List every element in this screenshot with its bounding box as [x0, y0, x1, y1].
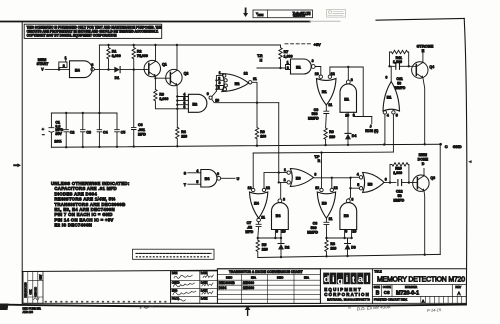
- svg-text:11: 11: [328, 103, 332, 107]
- wire E2 OR output to R6: [252, 82, 257, 102]
- svg-text:+5V: +5V: [314, 42, 322, 47]
- svg-text:DATE: DATE: [201, 271, 208, 275]
- wire GND rail: [51, 144, 441, 147]
- notes block: [51, 181, 130, 228]
- svg-text:6: 6: [385, 178, 387, 182]
- svg-text:MMFD: MMFD: [308, 117, 319, 121]
- svg-text:g: g: [337, 276, 343, 287]
- svg-text:C12: C12: [396, 190, 403, 194]
- svg-text:C6: C6: [138, 123, 143, 127]
- wire pin3 output: [314, 177, 351, 179]
- svg-text:1: 1: [287, 61, 289, 65]
- svg-text:4: 4: [196, 169, 198, 173]
- svg-text:R4: R4: [181, 130, 186, 134]
- svg-text:DEC: DEC: [277, 276, 284, 280]
- capacitor C2: [64, 113, 69, 147]
- wire +5V dashed: [285, 43, 311, 45]
- svg-text:9: 9: [353, 113, 355, 117]
- svg-text:V: V: [41, 67, 44, 71]
- svg-text:5: 5: [357, 183, 359, 187]
- wire pin1 E3T cross-couple: [264, 173, 287, 189]
- title block: [371, 269, 373, 304]
- wire E2 input stubs: [177, 97, 188, 109]
- capacitor C1: [49, 113, 54, 147]
- svg-text:B: B: [376, 291, 380, 297]
- wire D1 to Q1 base: [120, 69, 144, 71]
- svg-text:S: S: [184, 171, 187, 175]
- svg-text:2: 2: [63, 64, 65, 68]
- gate E2 expander OR: [222, 74, 249, 92]
- gate E2 expander AND: [188, 94, 207, 112]
- svg-text:Q3: Q3: [430, 176, 435, 180]
- svg-text:MMFD: MMFD: [393, 199, 404, 203]
- svg-text:A: A: [422, 300, 425, 304]
- svg-text:NUMBER: NUMBER: [293, 14, 305, 18]
- svg-text:MFD: MFD: [245, 230, 253, 234]
- svg-text:P-14-15: P-14-15: [427, 307, 442, 313]
- svg-text:E2: E2: [192, 101, 198, 106]
- svg-text:20%: 20%: [54, 140, 62, 144]
- capacitor C9: [324, 111, 329, 128]
- stamp number box: [253, 10, 313, 18]
- resistor R2: [132, 45, 135, 70]
- svg-text:D1: D1: [115, 76, 120, 80]
- svg-text:10: 10: [215, 99, 219, 103]
- svg-text:2N3009: 2N3009: [243, 281, 254, 285]
- gate E3 nor down mid: [320, 188, 323, 191]
- gate E1 or up: [383, 82, 400, 112]
- wire +5V feed down: [98, 45, 100, 113]
- svg-text:3: 3: [91, 63, 93, 67]
- svg-text:E3: E3: [322, 200, 328, 205]
- wire E2 AND out to OR bus: [212, 91, 217, 96]
- svg-text:+: +: [42, 126, 45, 131]
- svg-text:75,000: 75,000: [137, 54, 148, 58]
- svg-text:MEM: MEM: [419, 153, 427, 157]
- svg-text:.02: .02: [247, 226, 252, 230]
- svg-text:DATE: DATE: [201, 297, 208, 301]
- wire E2 output 10: [212, 99, 279, 103]
- svg-text:12: 12: [331, 72, 335, 76]
- node dots top rail: [107, 44, 178, 46]
- revisions table: [23, 271, 43, 303]
- wire Q1 collector: [155, 45, 157, 61]
- svg-text:8: 8: [351, 78, 353, 82]
- svg-text:CHK'D: CHK'D: [172, 281, 180, 285]
- svg-text:C7: C7: [247, 221, 252, 225]
- svg-text:SIZE: SIZE: [374, 285, 380, 289]
- border bottom heavy: [0, 305, 466, 307]
- gate E3 or top: [287, 171, 290, 174]
- svg-text:STROBE: STROBE: [417, 43, 434, 48]
- svg-text:10: 10: [352, 229, 356, 233]
- border top: [0, 21, 310, 23]
- svg-text:560: 560: [311, 226, 317, 230]
- resistor R11 loop: [390, 50, 409, 66]
- wire pin13 E4L: [252, 153, 254, 188]
- svg-text:C5: C5: [121, 130, 126, 134]
- resistor R4: [176, 127, 179, 146]
- svg-text:N: N: [348, 305, 351, 310]
- svg-text:8: 8: [283, 197, 285, 201]
- svg-text:10: 10: [282, 229, 286, 233]
- wire gnd return right: [439, 144, 441, 254]
- svg-text:MEMORY DETECTION M720: MEMORY DETECTION M720: [377, 277, 465, 284]
- svg-text:1: 1: [284, 168, 286, 172]
- diode D4: [345, 132, 351, 134]
- svg-text:C8: C8: [313, 221, 318, 225]
- svg-text:REVISIONS: REVISIONS: [24, 282, 28, 297]
- svg-text:EIA: EIA: [304, 276, 310, 280]
- svg-text:TITLE: TITLE: [374, 269, 382, 273]
- resistor R3: [154, 90, 178, 109]
- svg-text:CHG NO: CHG NO: [35, 287, 38, 297]
- svg-text:GND: GND: [453, 144, 462, 149]
- corner blob bottom-left: [0, 304, 9, 311]
- capacitor C6: [131, 70, 136, 147]
- transistor Q2: [166, 69, 182, 85]
- svg-text:PRINTED CIRCUIT REV.: PRINTED CIRCUIT REV.: [374, 298, 408, 302]
- wire Q4 collector STROBE: [422, 53, 424, 63]
- svg-text:CS: CS: [384, 290, 390, 295]
- svg-text:3: 3: [219, 81, 221, 85]
- svg-text:T.R: T.R: [257, 54, 263, 58]
- wire pin4 to gnd: [384, 114, 386, 145]
- wire Q3 emitter: [423, 191, 426, 255]
- svg-text:T: T: [184, 183, 187, 187]
- svg-text:R2: R2: [137, 50, 142, 54]
- svg-text:DEC3009B: DEC3009B: [219, 281, 236, 285]
- svg-text:56: 56: [397, 81, 401, 85]
- svg-text:R6: R6: [260, 130, 265, 134]
- svg-text:5: 5: [218, 86, 220, 90]
- svg-text:9: 9: [276, 229, 278, 233]
- zone arrow left border: [13, 163, 21, 167]
- gate E4 nand up: [272, 203, 289, 230]
- svg-text:4: 4: [357, 173, 359, 177]
- svg-text:CHK: CHK: [30, 289, 33, 294]
- svg-text:8: 8: [183, 105, 185, 109]
- wire E1 out to pin13: [315, 67, 321, 75]
- signatures handwriting: [173, 275, 213, 301]
- svg-text:.001: .001: [138, 128, 145, 132]
- svg-text:13: 13: [315, 186, 319, 190]
- svg-text:E1: E1: [344, 97, 350, 102]
- wire E1 output 6: [390, 66, 392, 81]
- resistor R8: [325, 238, 328, 256]
- svg-text:R: R: [318, 159, 321, 163]
- svg-text:3: 3: [314, 172, 316, 176]
- svg-text:C11: C11: [396, 77, 402, 81]
- gate E4 S T: [201, 170, 217, 188]
- gate E3 nand up: [340, 203, 357, 230]
- handwriting check mark: [140, 306, 154, 309]
- svg-text:R8: R8: [330, 242, 335, 246]
- svg-text:6: 6: [217, 172, 219, 176]
- svg-text:5: 5: [196, 180, 198, 184]
- gate E1 nand: [291, 59, 312, 74]
- notice box: [24, 24, 162, 38]
- svg-text:8: 8: [351, 197, 353, 201]
- svg-text:E: E: [422, 48, 425, 53]
- wire E2 OR input bus: [216, 76, 224, 92]
- transistor Q4: [412, 62, 428, 78]
- terminal D MEM DONE: [423, 168, 425, 175]
- wire node R10 C12: [384, 182, 417, 184]
- diode D3: [345, 238, 351, 244]
- svg-text:C3: C3: [86, 130, 91, 134]
- capacitor C3: [81, 113, 86, 147]
- connector strip dashed box: [133, 249, 215, 259]
- svg-text:5: 5: [396, 114, 398, 118]
- stamp arrow down: [243, 8, 248, 18]
- svg-text:E1: E1: [387, 94, 393, 99]
- svg-text:MMFD: MMFD: [395, 86, 406, 90]
- border bottom thin: [22, 302, 466, 304]
- capacitor C5: [115, 113, 120, 147]
- wire junction left cluster: [258, 230, 281, 238]
- svg-text:12: 12: [244, 72, 248, 76]
- svg-text:6: 6: [385, 76, 387, 80]
- svg-text:11: 11: [253, 77, 257, 81]
- svg-text:4: 4: [387, 114, 389, 118]
- gate E1 nor down: [319, 75, 322, 78]
- svg-text:9: 9: [345, 229, 347, 233]
- node pin2 box: [59, 62, 67, 68]
- svg-text:MFD: MFD: [138, 132, 146, 136]
- svg-text:i: i: [332, 274, 335, 285]
- svg-text:11: 11: [261, 216, 265, 220]
- svg-text:D: D: [422, 162, 425, 166]
- border top-right: [376, 18, 464, 20]
- svg-text:l: l: [366, 274, 369, 285]
- svg-text:11: 11: [329, 217, 333, 221]
- wire U output: [221, 177, 235, 179]
- diode D2: [278, 238, 284, 244]
- svg-text:NUMBER: NUMBER: [405, 285, 417, 289]
- svg-text:3: 3: [312, 59, 314, 63]
- svg-text:C9: C9: [314, 108, 319, 112]
- svg-text:MAYNARD, MASSACHUSETTS: MAYNARD, MASSACHUSETTS: [327, 298, 370, 301]
- svg-text:220: 220: [262, 247, 268, 251]
- svg-text:MMFD: MMFD: [307, 230, 318, 234]
- wire T input: [188, 183, 201, 185]
- node dots GND rail: [65, 143, 442, 149]
- wire node R11 C11: [390, 65, 417, 67]
- svg-text:E4: E4: [75, 68, 81, 73]
- wire MEM START to E4: [45, 68, 69, 70]
- svg-text:CODE: CODE: [383, 285, 391, 289]
- wire junction right cluster: [327, 230, 352, 238]
- svg-text:Q2: Q2: [184, 72, 189, 76]
- svg-text:−: −: [42, 132, 45, 137]
- svg-text:35V: 35V: [55, 132, 62, 136]
- svg-text:Q1: Q1: [162, 62, 167, 66]
- node dot R1: [107, 68, 109, 70]
- svg-text:D4: D4: [352, 134, 357, 138]
- wire E4 output: [94, 68, 114, 70]
- wire +5V rail: [99, 44, 280, 46]
- svg-text:E1: E1: [296, 65, 302, 70]
- svg-text:220: 220: [329, 135, 335, 139]
- svg-text:d: d: [324, 274, 330, 285]
- svg-text:T.P: T.P: [314, 155, 320, 159]
- wire T.R to E1: [257, 65, 291, 70]
- wire pin2 E3T from E4B: [279, 182, 287, 199]
- capacitor C4: [97, 113, 102, 147]
- svg-text:R7: R7: [284, 50, 289, 54]
- svg-text:H: H: [260, 59, 263, 63]
- svg-text:12: 12: [334, 186, 338, 190]
- svg-text:DRN: DRN: [172, 271, 178, 275]
- border right: [464, 18, 467, 303]
- svg-text:D3: D3: [351, 246, 356, 250]
- zone arrow right border: [468, 160, 471, 163]
- svg-text:J: J: [370, 125, 372, 129]
- svg-text:10: 10: [345, 113, 349, 117]
- svg-text:12: 12: [266, 186, 270, 190]
- svg-text:U: U: [237, 177, 240, 181]
- svg-text:2: 2: [287, 66, 289, 70]
- wire T.P to pin13 E3M: [321, 153, 323, 189]
- svg-text:1: 1: [65, 56, 67, 60]
- wire Q1 emitter / Q2 base: [155, 76, 165, 89]
- svg-text:D664: D664: [219, 286, 227, 290]
- svg-text:D.D. Eli ver 430B: D.D. Eli ver 430B: [357, 304, 391, 311]
- svg-text:CORPORATION: CORPORATION: [324, 292, 370, 297]
- svg-text:a: a: [358, 274, 364, 285]
- svg-text:220: 220: [330, 247, 336, 251]
- svg-text:ENG: ENG: [172, 289, 178, 293]
- svg-text:PROD: PROD: [172, 297, 180, 301]
- svg-text:E4: E4: [254, 200, 260, 205]
- svg-text:EIA: EIA: [251, 276, 257, 280]
- svg-text:13: 13: [248, 186, 252, 190]
- wire net Q pin12: [330, 67, 372, 117]
- svg-text:E3: E3: [344, 213, 350, 218]
- svg-text:R5: R5: [262, 243, 267, 247]
- svg-text:E3: E3: [368, 181, 374, 186]
- resistor R10 loop: [390, 163, 409, 183]
- svg-text:9: 9: [207, 92, 209, 96]
- svg-text:Q4: Q4: [429, 65, 434, 69]
- svg-text:56: 56: [398, 194, 402, 198]
- svg-text:C4: C4: [103, 130, 108, 134]
- capacitor C8: [324, 222, 329, 238]
- wire cross to E3B bubble: [348, 177, 359, 199]
- handwriting up arrow: [247, 310, 249, 316]
- transistor Q3: [413, 175, 429, 191]
- stamp copyright faint: [327, 10, 346, 18]
- conversion chart: [217, 269, 320, 304]
- svg-text:E2: E2: [235, 81, 241, 86]
- wire Q2 collector: [176, 45, 178, 70]
- wire pin12 E3M up: [331, 178, 333, 189]
- capacitor C7: [256, 222, 261, 238]
- svg-text:R10: R10: [395, 167, 402, 171]
- gate E4 nor down left: [252, 188, 255, 191]
- resistor R5: [256, 238, 259, 258]
- svg-text:D2: D2: [285, 246, 290, 250]
- svg-text:13: 13: [315, 72, 319, 76]
- wire cap bank top rail: [51, 112, 117, 114]
- wire Q4 emitter to gnd: [423, 78, 425, 145]
- gate E1 nand up: [346, 80, 350, 84]
- svg-text:C: C: [445, 144, 448, 149]
- long box with ticks: [170, 271, 172, 303]
- svg-text:R9: R9: [329, 130, 334, 134]
- svg-text:100: 100: [260, 135, 266, 139]
- svg-text:START: START: [37, 62, 50, 66]
- svg-text:i: i: [346, 274, 349, 285]
- wire E1 nand-up bubble to netQ: [347, 67, 349, 80]
- wire S input: [188, 172, 201, 174]
- svg-text:E1: E1: [322, 89, 328, 94]
- svg-text:COPYRIGHT 1967 BY DIGITAL EQUI: COPYRIGHT 1967 BY DIGITAL EQUIPMENT CORP…: [27, 33, 118, 37]
- svg-text:1,000: 1,000: [284, 55, 293, 59]
- svg-text:RUN (1): RUN (1): [365, 129, 379, 133]
- svg-text:1,000: 1,000: [393, 60, 402, 64]
- svg-text:E3: E3: [296, 176, 302, 181]
- resistor R6: [255, 103, 258, 146]
- svg-text:REV: REV: [455, 285, 461, 289]
- resistor R1: [107, 45, 110, 70]
- resistor R7: [279, 45, 282, 68]
- svg-text:TRANSISTOR & DIODE CONVERSION: TRANSISTOR & DIODE CONVERSION CHART: [229, 270, 304, 274]
- svg-text:DEC: DEC: [226, 276, 233, 280]
- svg-text:AHB 100: AHB 100: [23, 310, 34, 314]
- wire E2 output down to latch: [278, 103, 280, 183]
- svg-text:E4: E4: [205, 176, 211, 181]
- diode D1: [114, 67, 120, 73]
- border left: [21, 22, 23, 304]
- handwriting notes: [348, 304, 442, 313]
- signature block: [171, 271, 218, 303]
- svg-text:REV: REV: [257, 13, 263, 17]
- wire pin1 stub: [65, 60, 67, 62]
- transistor Q1: [144, 60, 160, 76]
- gate E3 or right: [359, 176, 362, 179]
- wire A feedback: [253, 151, 393, 154]
- svg-text:2: 2: [284, 178, 286, 182]
- svg-text:3,000: 3,000: [159, 97, 168, 101]
- svg-text:R3: R3: [159, 93, 164, 97]
- svg-text:E2 IS DEC7460N: E2 IS DEC7460N: [54, 223, 92, 228]
- terminal J RUN(1): [371, 117, 373, 124]
- gate E4 mem start: [70, 61, 93, 78]
- bottom strip top edge: [22, 269, 466, 272]
- svg-text:3,000: 3,000: [112, 54, 121, 58]
- svg-text:1N3606: 1N3606: [243, 286, 254, 290]
- resistor R9: [324, 128, 327, 145]
- svg-text:A: A: [457, 291, 461, 296]
- svg-text:1: 1: [219, 71, 221, 75]
- svg-text:R1: R1: [112, 50, 117, 54]
- wire Q2 emitter bus: [176, 85, 178, 127]
- svg-text:E4: E4: [276, 213, 282, 218]
- svg-text:560: 560: [312, 112, 318, 116]
- svg-text:C2: C2: [70, 130, 75, 134]
- svg-text:M720-0-1: M720-0-1: [396, 290, 419, 296]
- svg-text:DONE: DONE: [418, 157, 429, 161]
- digital logo: [319, 269, 321, 304]
- svg-text:1,000: 1,000: [393, 171, 402, 175]
- wire bottom rail: [258, 254, 440, 257]
- svg-text:220: 220: [181, 135, 187, 139]
- node T.P: [320, 151, 322, 153]
- wire pin5 down: [392, 114, 394, 152]
